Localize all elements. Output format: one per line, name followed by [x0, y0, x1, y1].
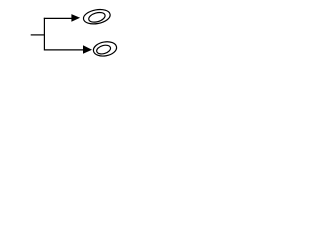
node: bottom ellipse outer — [92, 40, 117, 58]
wire: bottom branch — [44, 49, 84, 51]
arrowhead top — [71, 14, 80, 22]
arrowhead bottom — [83, 45, 92, 54]
node: bottom ellipse inner — [96, 44, 112, 56]
node: top ellipse inner — [88, 11, 107, 24]
wire: input stub — [31, 34, 45, 36]
wire: top branch — [44, 17, 72, 19]
node: top ellipse outer — [82, 8, 111, 26]
wire: vertical trunk — [43, 18, 45, 51]
